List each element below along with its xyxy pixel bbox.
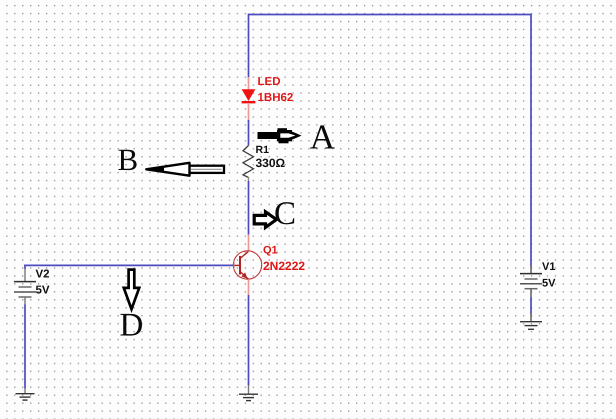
wire V1 negative lead [530,289,532,322]
annotation arrow C [254,212,276,228]
wire top horizontal [249,14,532,16]
wire V2 to ground [24,305,26,389]
wire ground lead center [248,385,250,394]
wire V2 positive lead [24,269,26,282]
annotation arrow A [258,128,302,143]
ground right [520,322,542,330]
ground center [239,394,258,400]
battery V2 5V [14,268,50,297]
resistor R1 330ohm [243,144,286,178]
svg-text:C: C [274,196,296,232]
label D [120,307,144,343]
wire left branch upper [248,14,250,78]
svg-text:B: B [118,142,139,177]
svg-text:A: A [310,118,336,157]
svg-text:LED: LED [258,76,281,88]
LED 1BH62 [242,76,294,104]
wire resistor lower lead [248,177,250,182]
wire V2 top corner [24,265,26,269]
battery V1 5V [520,261,556,289]
ground left [16,394,35,400]
wire V1 positive lead [530,266,532,274]
wire resistor to transistor [248,181,250,235]
wire emitter lead [248,279,250,295]
annotation arrow D [124,270,139,310]
svg-text:2N2222: 2N2222 [263,259,305,273]
label B [118,142,139,177]
wire base horizontal [24,264,233,266]
svg-text:5V: 5V [36,284,50,296]
svg-text:D: D [120,307,144,343]
wire right vertical [530,14,532,267]
wire collector lead [248,235,250,252]
wire ground lead left [24,388,26,394]
svg-text:330Ω: 330Ω [256,156,286,170]
transistor Q1 2N2222 [233,244,305,279]
svg-text:V2: V2 [36,268,50,280]
label C [274,196,296,232]
svg-text:1BH62: 1BH62 [258,92,294,104]
svg-text:R1: R1 [256,144,270,156]
label A [310,118,336,157]
wire LED to resistor [248,120,250,146]
wire V2 negative lead [24,297,26,305]
wire emitter to ground [248,295,250,386]
wire LED anode lead [248,77,250,90]
svg-text:Q1: Q1 [263,244,278,256]
svg-text:V1: V1 [542,261,555,273]
annotation arrow B [146,163,224,176]
svg-text:5V: 5V [542,277,556,289]
wire LED cathode lead [248,103,250,121]
